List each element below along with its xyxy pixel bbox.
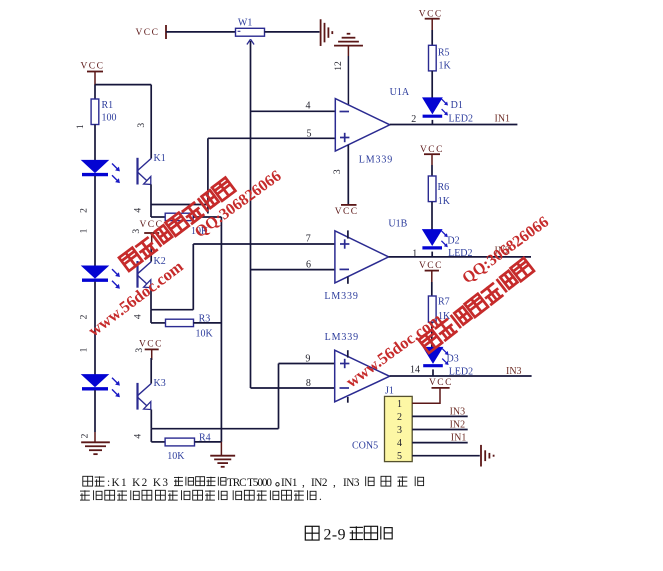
svg-text:7: 7 — [306, 234, 311, 245]
svg-text:4: 4 — [133, 434, 143, 439]
phototransistor K2 — [138, 256, 166, 288]
power flag VCC (R6) — [420, 145, 444, 165]
wire D3 to output row — [432, 369, 434, 376]
svg-text:K3: K3 — [154, 378, 166, 389]
wire K3 emitter down — [150, 410, 152, 429]
wire R6 to D2 — [431, 202, 433, 230]
phototransistor K1 — [138, 153, 166, 185]
wire to R3 left — [151, 322, 166, 324]
wire K1 emitter node — [151, 204, 208, 206]
svg-text:100: 100 — [102, 113, 117, 124]
svg-text:LED2: LED2 — [448, 248, 472, 259]
svg-text:J1: J1 — [385, 385, 394, 396]
U1B power pin stubs — [347, 230, 349, 238]
wire D2 to output row — [431, 252, 433, 257]
svg-text:4: 4 — [306, 101, 311, 112]
svg-text:LM339: LM339 — [325, 332, 359, 343]
svg-text:10K: 10K — [167, 451, 185, 462]
comparator U1C (LM339) — [335, 350, 390, 402]
svg-text:VCC: VCC — [419, 10, 443, 20]
wire K3 emitter node — [151, 428, 278, 430]
LED D3 — [423, 347, 448, 365]
power flag VCC (K3 collector) — [139, 340, 163, 360]
svg-text:CON5: CON5 — [352, 441, 378, 452]
phototransistor K3 — [138, 378, 166, 410]
svg-text:9: 9 — [305, 354, 310, 365]
wire K3 emitter to R4 — [150, 429, 152, 442]
wire to R4 left — [151, 441, 165, 443]
svg-text:TRC T5000: TRC T5000 — [227, 477, 272, 489]
svg-text:8: 8 — [306, 378, 311, 389]
power flag VCC (R7) — [419, 261, 443, 282]
svg-text:4: 4 — [134, 314, 144, 319]
infrared LED D-b (middle) — [82, 266, 120, 289]
svg-text:IN1: IN1 — [495, 113, 511, 124]
svg-text:IN1: IN1 — [281, 477, 298, 489]
infrared LED D-a (top) — [82, 160, 120, 183]
svg-text::K1 K2 K3: :K1 K2 K3 — [107, 477, 169, 489]
wire ground to U1A pin 12 — [347, 46, 349, 56]
svg-text:LED2: LED2 — [449, 366, 473, 377]
wire J1 pin2 net IN3 — [412, 415, 468, 417]
wire K2 emitter node — [151, 309, 193, 311]
wire U1C output to IN3 — [390, 375, 532, 377]
svg-text:VCC: VCC — [81, 62, 105, 72]
wire J1 pin4 net IN1 — [412, 442, 468, 444]
U1A pin 3 stub to VCC — [347, 145, 349, 205]
svg-text:VCC: VCC — [335, 207, 359, 217]
svg-text:R1: R1 — [102, 100, 114, 111]
svg-text:3: 3 — [333, 169, 343, 174]
svg-text:VCC: VCC — [429, 378, 453, 388]
svg-text:W1: W1 — [238, 18, 252, 29]
svg-text:1: 1 — [397, 399, 402, 410]
comparator U1B (LM339) — [335, 231, 389, 283]
svg-text:10K: 10K — [196, 329, 214, 340]
wire J1 pin5 to ground — [412, 455, 480, 457]
wire U1A pin5 drop to K1 emitter node — [207, 138, 209, 213]
wire R3 right to ground bus — [194, 322, 222, 324]
svg-text:2: 2 — [79, 314, 89, 319]
svg-text:LM339: LM339 — [324, 291, 358, 302]
svg-text:D1: D1 — [451, 100, 463, 111]
svg-text:,: , — [333, 477, 336, 489]
svg-text:R6: R6 — [438, 182, 450, 193]
wire to U1C pin 8 — [251, 387, 336, 389]
svg-text:U1A: U1A — [390, 87, 410, 98]
wire U1A output to IN1 — [390, 124, 518, 126]
wire J1 pin1 to VCC — [412, 388, 440, 403]
svg-text:IN2: IN2 — [450, 420, 466, 431]
svg-text:6: 6 — [306, 260, 311, 271]
svg-text:3: 3 — [132, 229, 142, 234]
resistor R3 — [166, 319, 194, 326]
svg-text:IN1: IN1 — [451, 433, 467, 444]
note text line 1 — [83, 476, 93, 486]
svg-text:VCC: VCC — [420, 145, 444, 155]
svg-text:D3: D3 — [447, 354, 459, 365]
wire K1 emitter to R2 — [150, 205, 152, 218]
svg-text:14: 14 — [410, 364, 420, 375]
svg-text:LM339: LM339 — [359, 154, 393, 165]
wire VCC to R1 — [94, 85, 96, 99]
svg-text:12: 12 — [334, 61, 344, 71]
LED D1 — [423, 98, 448, 116]
svg-text:1: 1 — [76, 124, 86, 129]
wire VCC to K2 collector — [150, 242, 152, 261]
watermark text 1 (graduation thesis site name) — [119, 178, 235, 271]
svg-text:VCC: VCC — [136, 28, 160, 38]
svg-text:U1B: U1B — [388, 219, 407, 230]
resistor R4 — [165, 438, 194, 446]
wire to R2 left — [151, 216, 165, 218]
svg-text:R7: R7 — [438, 297, 450, 308]
wire to U1A pin 4 — [251, 110, 336, 112]
wire VCC to R7 — [431, 282, 433, 296]
earth ground above U1A pin 12 — [334, 34, 363, 46]
svg-text:1K: 1K — [439, 61, 452, 72]
wire W1 to ground — [265, 31, 320, 33]
wire LED2 to LED3 — [94, 282, 96, 375]
svg-text:2: 2 — [81, 433, 91, 438]
watermark text 2 (graduation thesis site name) — [419, 258, 534, 353]
note text line 2 — [80, 490, 90, 500]
svg-text:R5: R5 — [438, 48, 450, 59]
svg-text:5: 5 — [397, 451, 402, 462]
svg-text:5: 5 — [307, 129, 312, 140]
potentiometer W1 — [236, 18, 265, 45]
wire R4 right to ground bus — [195, 441, 222, 443]
wire U1B output to IN2 — [389, 256, 531, 258]
wire R5 to D1 — [431, 71, 433, 98]
svg-text:R3: R3 — [199, 313, 211, 324]
resistor R5 — [429, 45, 437, 71]
connector J1 CON5 — [385, 396, 413, 462]
wire K1 emitter down — [150, 184, 152, 204]
power flag VCC (top, feeding W1) — [136, 25, 167, 39]
svg-text:VCC: VCC — [419, 261, 443, 271]
power flag VCC (K2 collector) — [140, 220, 164, 242]
wire W1 wiper bus (reference voltage) — [250, 41, 252, 388]
svg-text:R4: R4 — [199, 432, 211, 443]
svg-text:2-9: 2-9 — [324, 527, 347, 544]
resistor R1 — [91, 99, 99, 125]
svg-text:4: 4 — [397, 438, 402, 449]
svg-text:LED2: LED2 — [449, 114, 473, 125]
svg-text:1K: 1K — [438, 196, 451, 207]
wire U1B pin7 drop to K2 emitter node — [192, 244, 194, 310]
power flag VCC (left column) — [81, 62, 105, 86]
svg-text:3: 3 — [397, 425, 402, 436]
infrared LED D-c (bottom) — [82, 375, 120, 398]
svg-text:3: 3 — [135, 348, 145, 353]
svg-text:IN2: IN2 — [311, 477, 328, 489]
wire LED3 to ground — [94, 390, 96, 432]
svg-text:K1: K1 — [154, 153, 166, 164]
svg-text:IN3: IN3 — [450, 407, 466, 418]
wire VCC to W1 — [166, 31, 236, 33]
resistor R7 — [428, 296, 436, 322]
earth ground (rotated, right of W1) — [321, 19, 333, 46]
svg-text:2: 2 — [411, 114, 416, 125]
U1C power pin stubs — [347, 350, 349, 357]
resistor R2 — [165, 213, 193, 220]
wire VCC to R5 — [431, 30, 433, 45]
wire to U1C pin 9 — [279, 363, 336, 365]
svg-text:3: 3 — [137, 123, 147, 128]
wire D1 to output row — [431, 120, 433, 125]
wire to U1B pin 7 — [193, 243, 335, 245]
caption: figure 2-9 circuit diagram — [305, 526, 319, 540]
LED D2 — [422, 230, 447, 248]
ground bus vertical (R2/R3/R4) — [220, 217, 222, 442]
wire VCC branch to K1 collector — [95, 84, 151, 86]
wire to U1A pin 5 — [208, 137, 335, 139]
wire VCC to R6 — [431, 165, 433, 176]
wire VCC to K3 collector — [150, 358, 152, 384]
svg-text:1: 1 — [80, 347, 90, 352]
power flag VCC (R5) — [419, 10, 443, 30]
wire R1 to LED1 — [94, 125, 96, 161]
comparator U1A (LM339) — [335, 99, 390, 152]
resistor R6 — [428, 176, 436, 202]
wire U1C pin9 drop to K3 emitter — [278, 364, 280, 429]
wire LED1 to LED2 — [94, 176, 96, 266]
wire R7 to D3 — [431, 322, 433, 347]
earth ground (sensor bus) — [210, 456, 235, 467]
earth ground (left column) — [81, 442, 110, 454]
svg-text:2: 2 — [79, 208, 89, 213]
svg-text:2: 2 — [397, 412, 402, 423]
svg-text:,: , — [302, 477, 305, 489]
svg-text:4: 4 — [134, 208, 144, 213]
wire K2 emitter down — [150, 288, 152, 310]
wire to U1B pin 6 — [251, 269, 336, 271]
wire J1 pin3 net IN2 — [412, 429, 468, 431]
svg-text:.: . — [319, 491, 322, 503]
svg-text:IN3: IN3 — [343, 477, 360, 489]
wire R2 right to ground bus — [193, 216, 221, 218]
svg-text:1: 1 — [80, 228, 90, 233]
svg-text:D2: D2 — [447, 236, 459, 247]
wire K2 emitter to R3 — [150, 310, 152, 323]
svg-text:IN3: IN3 — [506, 366, 522, 377]
wire to K1 collector — [150, 85, 152, 159]
earth ground (J1 pin5) — [481, 445, 494, 467]
